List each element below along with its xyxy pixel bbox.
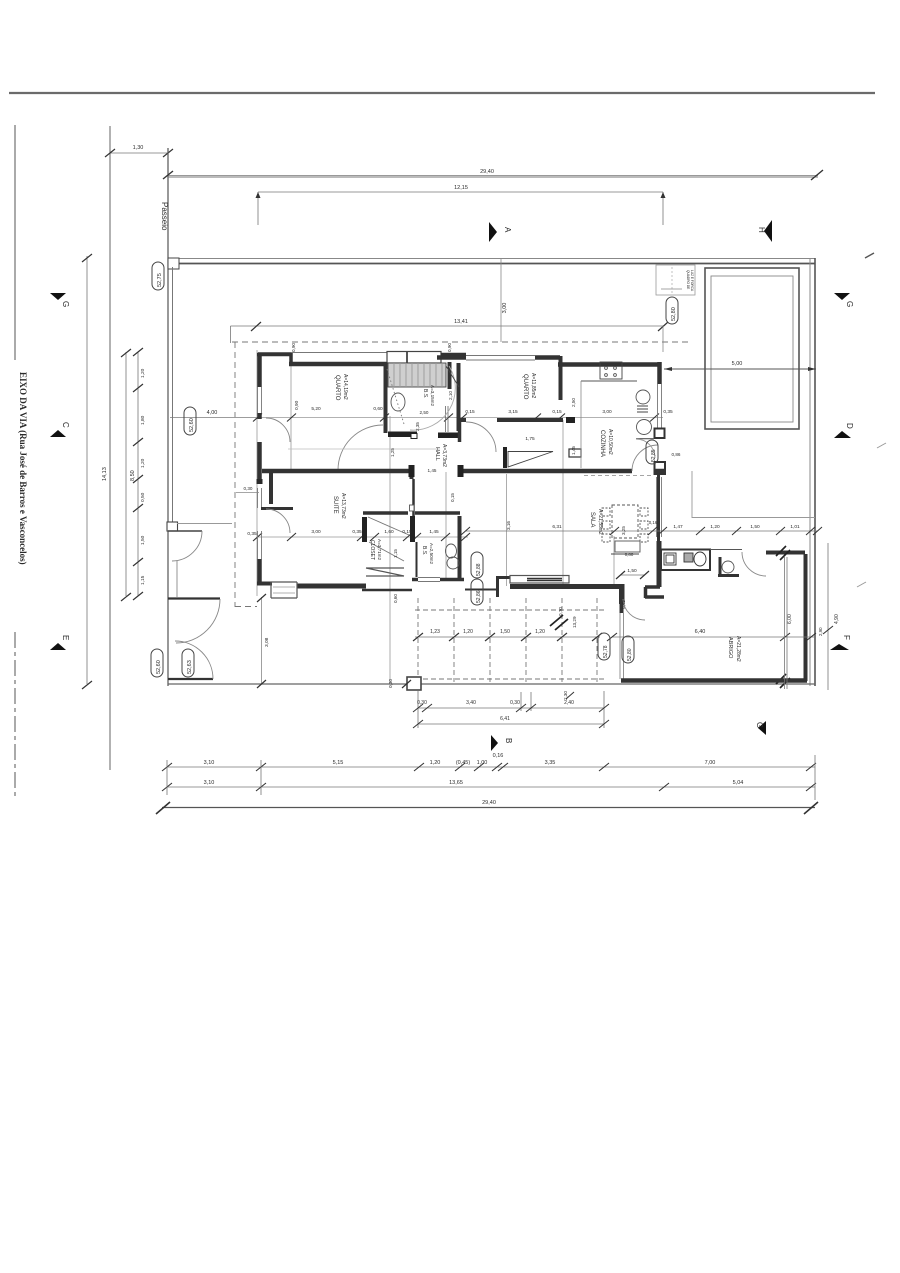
dim 13.41 <box>231 326 664 343</box>
dotted leader quarto1 <box>387 369 404 424</box>
beiral line <box>258 352 387 354</box>
leader 4.00 <box>170 417 256 419</box>
fence right double line <box>809 258 811 686</box>
svg-text:1,75: 1,75 <box>525 436 535 442</box>
svg-text:QUARTO: QUARTO <box>334 375 340 401</box>
svg-text:52,80: 52,80 <box>627 648 633 661</box>
svg-text:2,50: 2,50 <box>571 398 576 407</box>
svg-text:5,04: 5,04 <box>733 780 744 786</box>
kitchen ext door leaf <box>636 438 654 440</box>
svg-text:0,90: 0,90 <box>447 343 452 352</box>
kitchen post upper <box>655 429 665 439</box>
marker H <box>764 220 772 242</box>
varanda top wall <box>766 551 805 555</box>
marker G right <box>834 293 850 300</box>
terrace entry slab <box>407 677 421 690</box>
bs1 door frame lines <box>446 406 449 432</box>
left wall door arc lower <box>266 509 290 533</box>
corner ticks top-right <box>776 546 790 560</box>
svg-text:3,00: 3,00 <box>311 529 321 535</box>
svg-text:H: H <box>757 227 766 233</box>
svg-text:52,80: 52,80 <box>671 307 677 321</box>
svg-text:52,63: 52,63 <box>187 660 193 674</box>
svg-text:1,01: 1,01 <box>790 524 800 530</box>
dim 14.13 line <box>86 256 88 684</box>
quarto1 right / bathroom left wall <box>384 362 388 433</box>
svg-text:A=10,50m2: A=10,50m2 <box>607 429 613 455</box>
marker D right <box>834 431 851 438</box>
svg-text:2,10: 2,10 <box>448 391 453 400</box>
top rule <box>9 92 875 94</box>
suite vestibule stub wall <box>269 473 273 504</box>
svg-text:0,15: 0,15 <box>402 529 412 535</box>
svg-text:A=3,71m2: A=3,71m2 <box>377 539 382 561</box>
svg-text:3,10: 3,10 <box>204 780 215 786</box>
svg-text:3,00: 3,00 <box>502 303 508 314</box>
gate arc lower <box>175 641 213 679</box>
bathroom right wall <box>448 362 452 389</box>
kitchen post lower <box>655 462 666 474</box>
quarto2 right wall <box>559 356 563 400</box>
svg-text:0,80: 0,80 <box>625 552 634 557</box>
kitchen top wall <box>558 362 660 367</box>
svg-text:1,47: 1,47 <box>673 524 683 530</box>
kitchen stove circle <box>637 420 652 435</box>
divider door jamb right <box>458 465 464 477</box>
svg-text:0,35: 0,35 <box>247 531 257 537</box>
exterior left wall segments <box>257 353 262 583</box>
svg-text:A=3,73m2: A=3,73m2 <box>441 444 447 467</box>
svg-text:1,50: 1,50 <box>140 535 146 545</box>
svg-text:G: G <box>845 301 854 307</box>
svg-text:13,29: 13,29 <box>572 616 577 628</box>
svg-text:14,13: 14,13 <box>102 467 108 481</box>
grid line x=614 <box>613 536 615 588</box>
svg-text:B: B <box>504 738 513 743</box>
svg-text:7,00: 7,00 <box>705 760 716 766</box>
svg-text:1,50: 1,50 <box>627 568 637 574</box>
svg-text:0,15: 0,15 <box>450 493 455 502</box>
interior dim line y=537 <box>258 536 468 538</box>
svg-text:52,88: 52,88 <box>476 563 482 576</box>
svg-text:B.S.: B.S. <box>421 546 427 555</box>
bs2 bottom window <box>418 578 440 582</box>
kitchen right wall <box>657 362 662 384</box>
svg-text:A=14,19m2: A=14,19m2 <box>342 374 348 400</box>
marker F right <box>830 644 849 650</box>
kitchen right wall lower / abrigo left wall <box>657 541 662 587</box>
bs2 sink <box>447 557 459 569</box>
svg-text:A=2,50m2: A=2,50m2 <box>429 543 434 565</box>
pool inner <box>711 276 793 422</box>
service nook box <box>661 550 710 571</box>
extension verticals <box>166 760 168 795</box>
kitchen sink circle <box>636 390 650 404</box>
fence top double line <box>168 258 815 260</box>
toilet bs1 <box>391 393 405 411</box>
svg-text:LUZ E FORCA: LUZ E FORCA <box>690 270 694 292</box>
quarto1 door arc <box>338 425 383 470</box>
terrace dim row <box>415 636 600 638</box>
svg-text:1,20: 1,20 <box>140 458 146 468</box>
dim 29.40 top <box>168 175 818 177</box>
svg-text:0,70: 0,70 <box>558 607 563 616</box>
svg-text:G: G <box>61 301 70 307</box>
svg-text:2,30: 2,30 <box>563 691 568 700</box>
svg-text:Passeio: Passeio <box>160 202 169 231</box>
svg-text:2,35: 2,35 <box>415 422 420 431</box>
svg-text:0,90: 0,90 <box>291 343 296 352</box>
svg-text:0,15: 0,15 <box>552 409 562 415</box>
svg-text:4,00: 4,00 <box>207 410 218 416</box>
svg-text:C: C <box>61 422 70 428</box>
sala sideboard <box>615 541 640 552</box>
left wall door arc upper <box>266 418 290 442</box>
marker E left <box>50 643 66 650</box>
svg-text:D: D <box>845 423 854 429</box>
divider jog <box>410 471 414 479</box>
svg-text:A=3,15m2: A=3,15m2 <box>430 385 435 407</box>
svg-text:1,45: 1,45 <box>428 468 437 473</box>
upper varanda chain <box>466 530 818 532</box>
corner ticks bottom-right <box>776 674 790 688</box>
svg-text:QUADRO DE: QUADRO DE <box>686 270 690 289</box>
svg-text:52,60: 52,60 <box>156 660 162 674</box>
svg-text:13,41: 13,41 <box>454 319 468 325</box>
svg-text:1,60: 1,60 <box>384 529 394 535</box>
svg-text:1,20: 1,20 <box>140 368 146 378</box>
svg-text:6,40: 6,40 <box>695 629 706 635</box>
dim 1.30 <box>110 152 168 154</box>
window left wall upper <box>258 387 262 413</box>
dashed setback line horizontal <box>232 341 692 343</box>
svg-text:3,10: 3,10 <box>204 760 215 766</box>
corridor shelf triangle <box>508 452 553 468</box>
svg-text:1,15: 1,15 <box>140 575 146 585</box>
svg-text:4,90: 4,90 <box>834 614 840 624</box>
svg-text:E: E <box>61 635 70 640</box>
door arc bs1 <box>410 366 455 430</box>
svg-text:5,15: 5,15 <box>333 760 344 766</box>
left dim chain 8.50 <box>125 352 127 596</box>
closet door diagonal2 <box>369 542 404 561</box>
lot corner tick top-right <box>865 253 874 258</box>
muro left of abrigo court <box>620 598 624 613</box>
quarto2 top wall pieces <box>437 355 466 360</box>
svg-text:52,78: 52,78 <box>603 645 609 658</box>
svg-text:0,60: 0,60 <box>373 406 383 412</box>
marker B bottom <box>491 735 498 751</box>
svg-text:52,75: 52,75 <box>157 273 163 287</box>
svg-text:1,45: 1,45 <box>429 529 439 535</box>
svg-text:A=21,28m2: A=21,28m2 <box>735 636 741 662</box>
hall west wall <box>412 479 415 517</box>
svg-text:A=13,73m2: A=13,73m2 <box>340 493 346 519</box>
grid line through left wall <box>256 350 258 596</box>
svg-text:3,35: 3,35 <box>545 760 556 766</box>
quarto2 west wall <box>457 363 461 431</box>
poché chunk left wall <box>257 479 263 484</box>
svg-text:12,15: 12,15 <box>454 185 468 191</box>
corner to bottom <box>645 587 660 598</box>
svg-text:CLOSET: CLOSET <box>369 540 375 560</box>
svg-text:52,86: 52,86 <box>476 590 482 603</box>
svg-text:0,45: 0,45 <box>621 600 626 609</box>
svg-text:ABRIGO: ABRIGO <box>727 637 733 659</box>
quarto1 top wall outer step <box>257 353 291 364</box>
varanda bottom wall <box>621 678 807 683</box>
main bottom chains <box>167 766 815 768</box>
wc walls <box>718 557 739 577</box>
svg-text:0,16: 0,16 <box>649 520 658 525</box>
dashed setback vertical <box>234 342 236 607</box>
svg-text:A=21,55m2: A=21,55m2 <box>597 509 603 535</box>
double tick cluster terrace <box>550 615 568 630</box>
closet door stub <box>410 505 415 511</box>
suite vestibule wall <box>261 507 293 510</box>
kitchen right window <box>658 384 662 428</box>
lot corner tick right-lower <box>857 582 866 587</box>
corridor shelf line <box>288 448 440 450</box>
svg-text:2,50: 2,50 <box>420 410 429 415</box>
sala bottom thin wall left <box>465 589 498 591</box>
fence post left <box>168 258 179 269</box>
closet top wall <box>363 511 460 515</box>
svg-text:2,90: 2,90 <box>818 627 823 636</box>
kitchen counter <box>581 380 637 382</box>
svg-text:1,20: 1,20 <box>535 629 545 635</box>
svg-text:13,65: 13,65 <box>449 780 463 786</box>
yard divider line <box>177 523 232 525</box>
svg-text:3,15: 3,15 <box>508 409 518 415</box>
svg-text:SUITE: SUITE <box>332 496 338 514</box>
svg-text:0,30: 0,30 <box>244 486 253 491</box>
wc top thin line <box>710 549 742 551</box>
window left wall mid <box>258 488 262 508</box>
gate wall stubs left <box>168 599 220 680</box>
divider door jamb left <box>409 465 415 477</box>
svg-text:5,20: 5,20 <box>311 406 321 412</box>
svg-text:6,31: 6,31 <box>552 524 562 530</box>
grid line x=390 <box>389 416 391 686</box>
svg-text:HALL: HALL <box>434 447 440 461</box>
svg-text:F: F <box>842 635 851 640</box>
bathroom bottom wall poché <box>388 432 417 438</box>
quarto1 top wall <box>289 362 387 367</box>
kitchen door arc <box>632 445 658 471</box>
svg-text:1,50: 1,50 <box>750 524 760 530</box>
svg-text:1,25: 1,25 <box>390 448 395 457</box>
svg-text:1,23: 1,23 <box>430 629 440 635</box>
sala big window <box>510 576 569 584</box>
svg-text:B.S.: B.S. <box>422 389 428 398</box>
svg-text:1,20: 1,20 <box>463 629 473 635</box>
service tanque <box>664 553 676 565</box>
svg-text:A: A <box>503 227 512 233</box>
marker G bottom <box>758 721 766 735</box>
hall door arc <box>466 422 496 452</box>
quarto2 top window <box>466 356 535 361</box>
bs2 right wall <box>458 516 462 580</box>
ticks on y=415 <box>253 414 659 422</box>
lot corner tick right-mid <box>877 443 886 448</box>
closet poché left <box>362 517 367 542</box>
sala porch jog <box>498 578 511 598</box>
svg-text:1,00: 1,00 <box>477 760 488 766</box>
bs2 bottom wall <box>412 578 464 582</box>
closet door diagonal <box>368 517 409 535</box>
svg-text:0,35: 0,35 <box>663 409 673 415</box>
inner fence line lower <box>176 561 178 597</box>
svg-text:1,15: 1,15 <box>393 549 398 558</box>
road edge line <box>109 126 111 770</box>
bs1 top wall right <box>441 353 466 358</box>
svg-text:0,86: 0,86 <box>672 452 681 457</box>
exterior wall piece below sala <box>645 595 664 599</box>
entry gate wall top-left site <box>168 530 202 532</box>
bs1 top window <box>387 352 441 364</box>
dim 12.15 <box>258 191 663 193</box>
varanda dim <box>612 636 814 638</box>
svg-text:29,40: 29,40 <box>480 169 494 175</box>
sala bottom wall <box>510 584 619 589</box>
gate arc upper <box>176 599 220 643</box>
dashed eave line sala <box>584 475 654 477</box>
site boundary left <box>167 148 169 686</box>
svg-text:0,35: 0,35 <box>352 529 362 535</box>
kitchen/sala right exterior wall <box>657 474 660 541</box>
bathroom door white jamb <box>411 434 417 439</box>
svg-text:52,85: 52,85 <box>651 449 657 462</box>
svg-text:1,30: 1,30 <box>133 145 144 151</box>
svg-text:G: G <box>755 722 764 728</box>
hall NE corner wall <box>458 420 462 442</box>
wc toilet <box>722 561 734 573</box>
svg-text:0,30: 0,30 <box>417 700 427 706</box>
svg-text:3,40: 3,40 <box>466 700 476 706</box>
svg-text:3,16: 3,16 <box>506 521 511 530</box>
kitchen ext door arc <box>636 439 655 458</box>
closet bottom window <box>366 568 404 576</box>
svg-text:1,50: 1,50 <box>500 629 510 635</box>
bs1/hall wall chunk <box>438 433 459 439</box>
svg-text:1,20: 1,20 <box>710 524 720 530</box>
site bottom boundary <box>168 683 815 685</box>
marker G left <box>50 293 66 300</box>
shower hatch bs1 <box>388 363 446 387</box>
svg-text:(0,45): (0,45) <box>456 760 471 766</box>
svg-text:5,00: 5,00 <box>732 361 743 367</box>
dim 1.50 opening <box>621 574 645 576</box>
svg-text:0,90: 0,90 <box>294 400 300 410</box>
svg-text:QUARTO: QUARTO <box>522 374 528 400</box>
svg-text:0,60: 0,60 <box>393 594 398 603</box>
shelf left support <box>503 447 507 468</box>
svg-text:EIXO DA VIA (Rua José de Barro: EIXO DA VIA (Rua José de Barros e Vascon… <box>18 372 28 565</box>
interior wall below quarto2 <box>458 418 563 422</box>
quadro de luz box <box>656 265 695 295</box>
left dim chain detail <box>137 352 139 596</box>
svg-text:1,80: 1,80 <box>140 415 146 425</box>
svg-text:6,00: 6,00 <box>787 614 793 624</box>
dim 3.00 vertical fence-to-house <box>500 259 502 342</box>
svg-text:0,30: 0,30 <box>388 679 393 688</box>
grid line x=563 <box>562 420 564 586</box>
wc door arc <box>742 552 766 576</box>
bs2 toilet <box>446 544 457 558</box>
dim row 0.30/3.40/0.30/2.40 <box>418 707 604 709</box>
grid line x=292 <box>290 353 292 472</box>
backyard slab L-line <box>692 471 815 518</box>
marker C left <box>50 430 66 437</box>
svg-text:0,16: 0,16 <box>493 753 504 759</box>
svg-text:0,50: 0,50 <box>140 492 146 502</box>
sala SE door post <box>619 584 625 604</box>
fence post mid <box>167 522 178 531</box>
entry gate arc <box>172 531 202 561</box>
varanda right wall <box>804 554 808 681</box>
suite window bay <box>271 582 297 598</box>
marker A <box>489 222 497 242</box>
svg-text:29,40: 29,40 <box>482 800 496 806</box>
sala table dashed <box>612 505 638 538</box>
window left wall lower <box>258 531 262 559</box>
closet/bs wall <box>416 542 418 577</box>
svg-text:COZINHA: COZINHA <box>599 430 605 457</box>
abrigo court door arc <box>623 599 645 620</box>
pool outer <box>705 268 799 429</box>
svg-text:52,60: 52,60 <box>189 418 195 432</box>
corridor/sala dividing wall band <box>262 469 632 474</box>
grid line x=446 <box>445 472 447 578</box>
svg-text:3,00: 3,00 <box>602 409 612 415</box>
interior dim line y=415 <box>170 417 663 419</box>
road centerline (EIXO DA VIA) <box>14 125 16 360</box>
dim 3.08 building to boundary <box>257 594 411 688</box>
inner fence line upper <box>172 267 174 522</box>
door leaf black quarto2 <box>566 417 575 423</box>
svg-text:3,08: 3,08 <box>264 637 270 647</box>
svg-text:1,45: 1,45 <box>571 446 576 455</box>
svg-text:A=11,85m2: A=11,85m2 <box>530 373 536 399</box>
grid line x=506 sala <box>506 474 508 586</box>
site boundary top <box>168 176 818 178</box>
svg-text:SALA: SALA <box>589 512 595 527</box>
suite bottom wall <box>257 582 272 586</box>
svg-text:0,30: 0,30 <box>510 700 520 706</box>
svg-text:1,20: 1,20 <box>430 760 441 766</box>
svg-text:3,25: 3,25 <box>621 526 626 535</box>
svg-text:8,50: 8,50 <box>130 470 136 481</box>
door leaf bs1 diagonal <box>446 366 459 387</box>
svg-text:0,15: 0,15 <box>465 409 475 415</box>
tick <box>82 254 92 689</box>
5.00 pool dim <box>664 368 816 370</box>
quarto2 door white jamb <box>569 449 581 457</box>
svg-text:6,41: 6,41 <box>500 716 510 722</box>
closet poché right <box>410 516 415 542</box>
